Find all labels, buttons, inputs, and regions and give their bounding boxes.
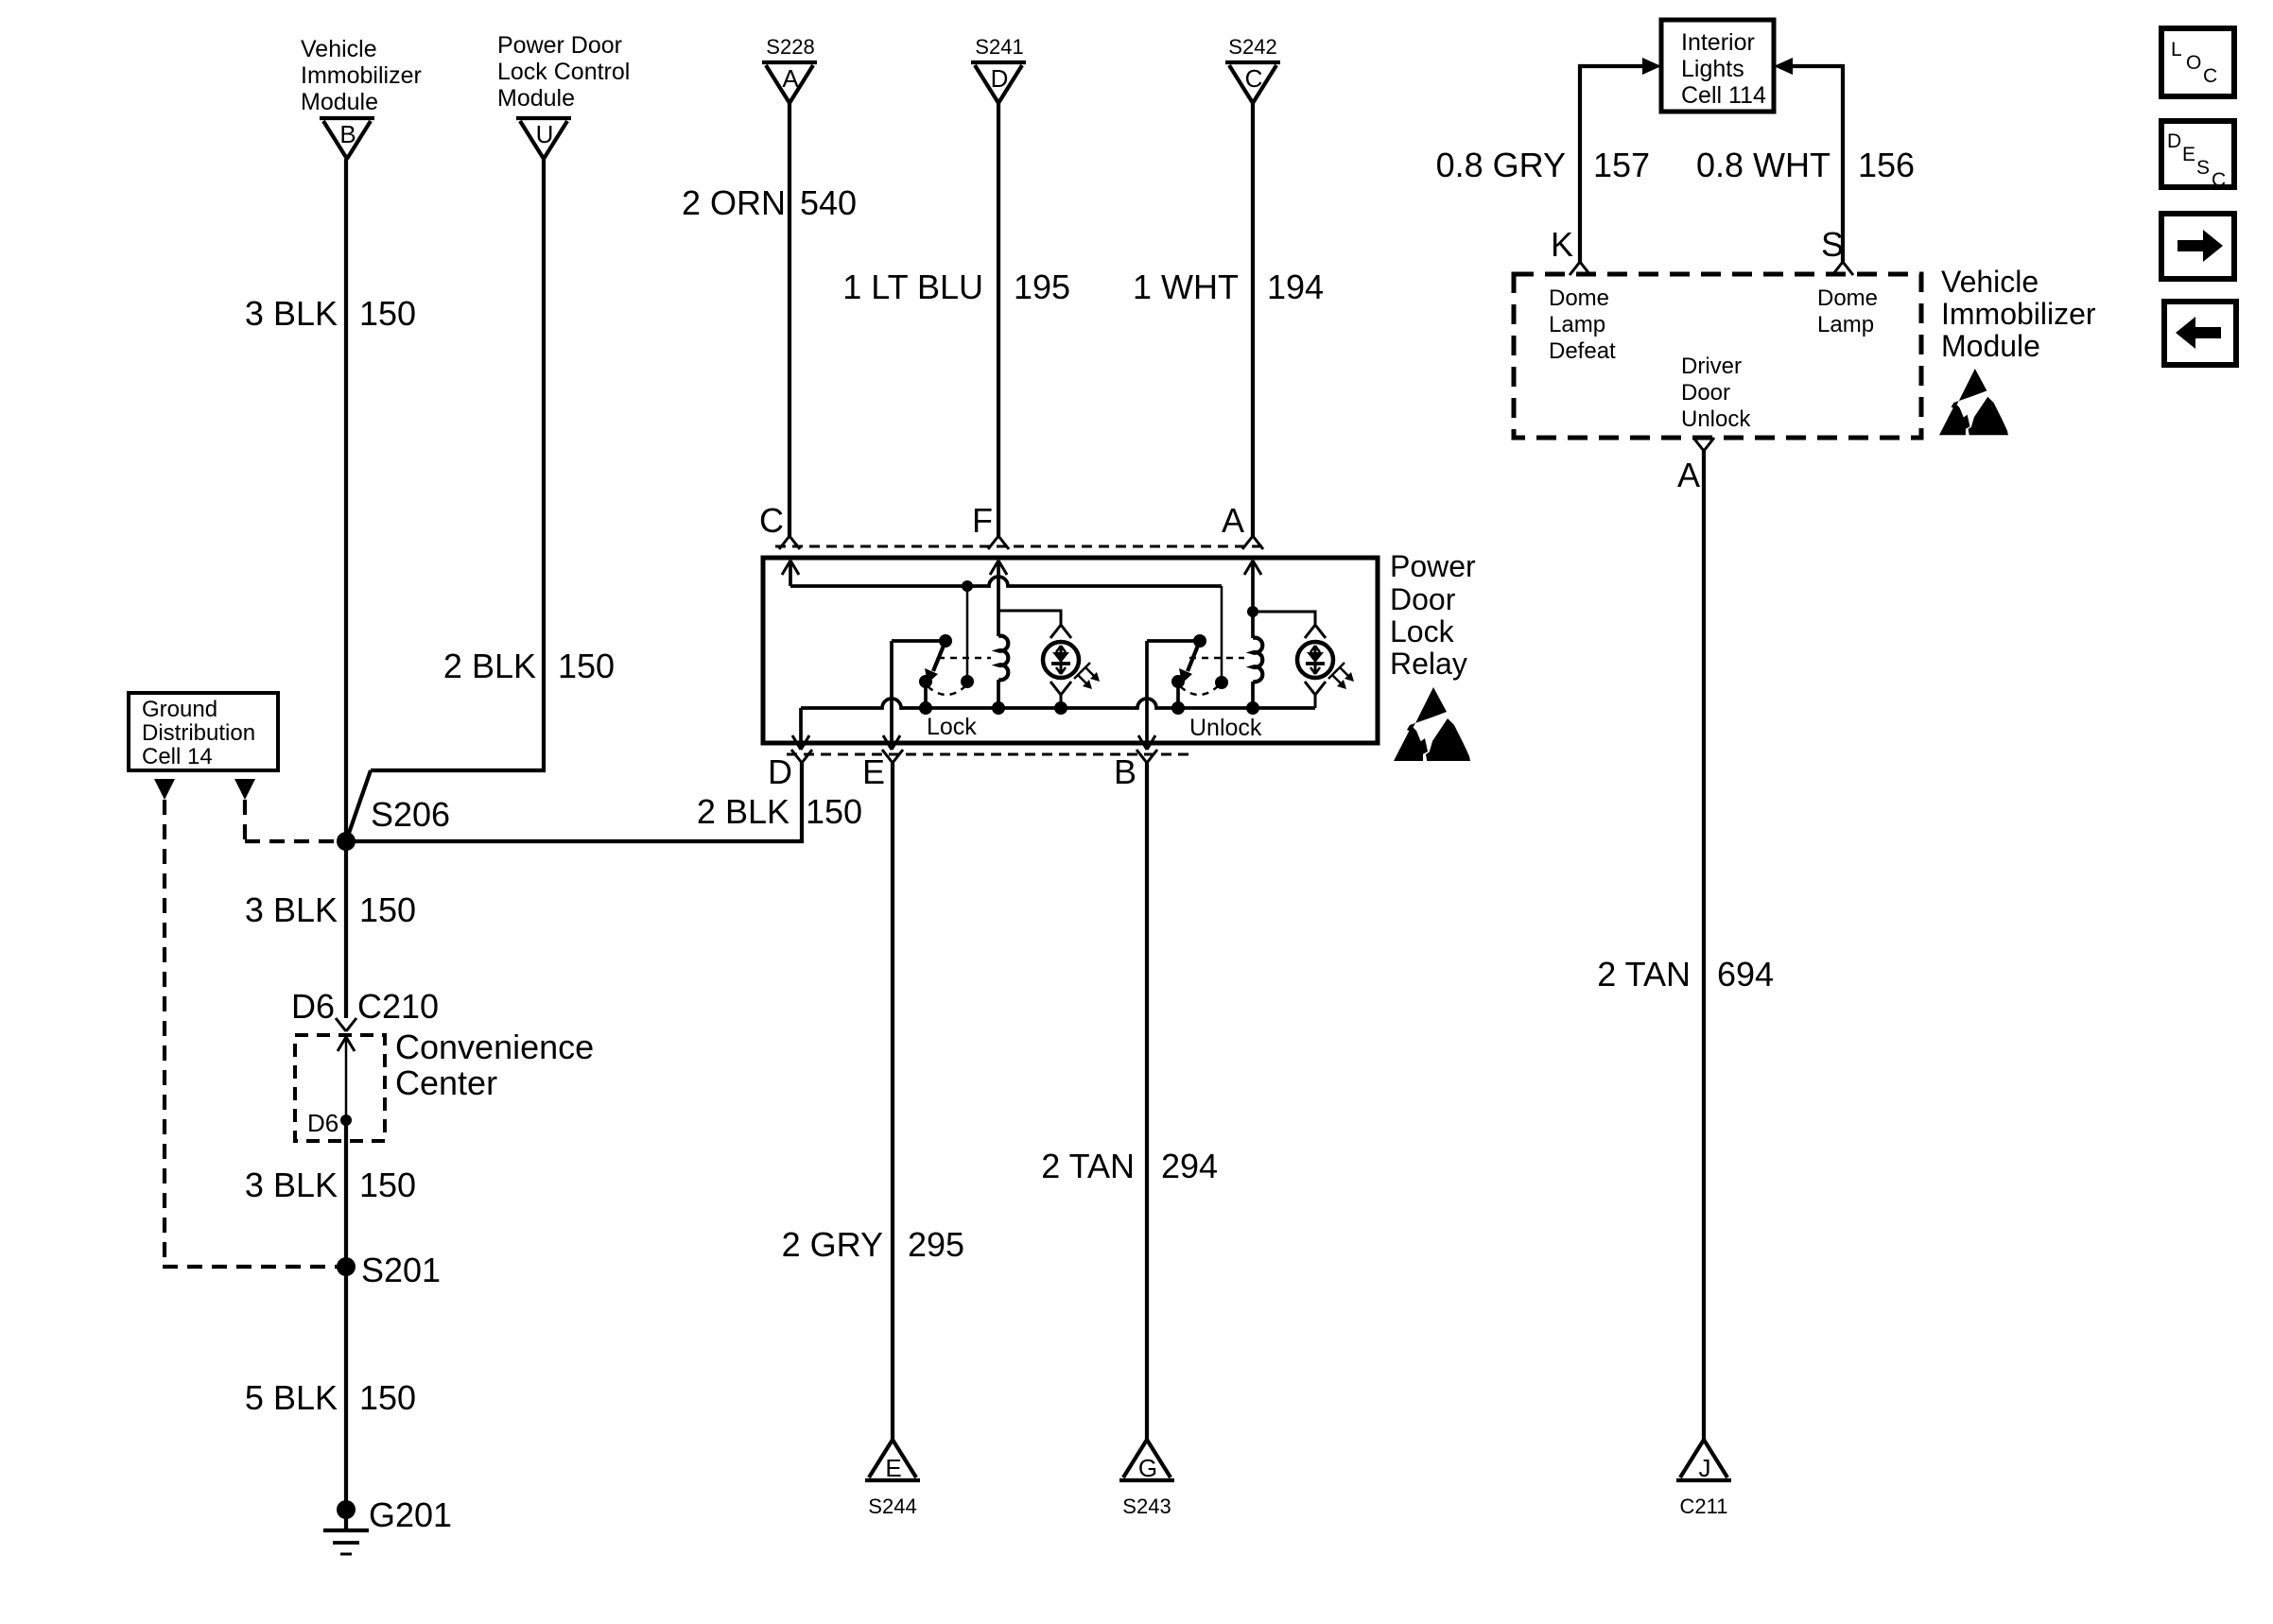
unlock switch blade with arrow — [1179, 641, 1200, 683]
splice label S242 — [1228, 35, 1276, 59]
lock switch to coil mechanical dashed link — [938, 657, 991, 660]
pin letter F (relay) — [972, 501, 993, 540]
lock switch feed corner from pin E — [892, 639, 946, 643]
svg-text:Ground: Ground — [142, 697, 217, 722]
label 2 BLK 150 (U wire) — [443, 647, 615, 685]
svg-text:Unlock: Unlock — [1189, 715, 1262, 741]
svg-text:Immobilizer: Immobilizer — [1941, 297, 2096, 331]
relay internal pin E wire and arrow down — [883, 641, 900, 750]
svg-text:Lock: Lock — [927, 714, 977, 740]
svg-text:156: 156 — [1858, 146, 1915, 184]
svg-text:Convenience: Convenience — [395, 1028, 594, 1066]
unlock switch feed corner from pin B — [1147, 639, 1200, 643]
svg-text:3 BLK: 3 BLK — [245, 294, 338, 333]
VIM pin S fork — [1832, 262, 1853, 275]
connector triangle B (Vehicle Immobilizer Module pin B) — [320, 118, 374, 159]
VIM pin K fork — [1570, 262, 1590, 275]
lock coil bottom junction — [992, 701, 1005, 715]
svg-text:C: C — [1245, 64, 1263, 93]
svg-text:S206: S206 — [371, 795, 450, 834]
label 3 BLK 150 (upper) — [245, 294, 416, 333]
back arrow button — [2164, 302, 2236, 365]
lock LED top fork — [1050, 625, 1071, 638]
thin wire to unlock switch fixed contact — [1221, 586, 1223, 682]
relay internal bottom rail — [801, 699, 1315, 708]
node junction on bus (lock fixed contact branch) — [962, 580, 973, 592]
svg-text:Unlock: Unlock — [1681, 406, 1751, 432]
label 3 BLK 150 (middle) — [245, 890, 416, 929]
label 2 TAN 294 — [1041, 1147, 1218, 1185]
relay internal pin A arrow up and coil feed wire — [1244, 561, 1261, 638]
svg-text:U: U — [536, 120, 554, 148]
DESC button — [2161, 121, 2234, 191]
connector label C211 — [1680, 1494, 1728, 1518]
svg-text:C: C — [759, 501, 784, 540]
lock switch fixed contact — [961, 675, 974, 688]
unlock coil bottom junction — [1246, 701, 1259, 715]
label Dome Lamp — [1817, 285, 1878, 337]
svg-text:Lights: Lights — [1681, 56, 1744, 82]
wire B vertical 3 BLK 150 to S206 — [344, 159, 348, 841]
pin letter C (relay) — [759, 501, 784, 540]
svg-text:150: 150 — [558, 647, 615, 685]
lock switch blade with arrow — [925, 641, 946, 683]
LOC button — [2161, 28, 2234, 96]
connector triangle A (S228) — [762, 62, 817, 103]
module label Vehicle Immobilizer Module (right) — [1941, 265, 2096, 363]
svg-text:Lock: Lock — [1390, 614, 1455, 648]
svg-text:Vehicle: Vehicle — [301, 36, 377, 62]
label 2 GRY 295 — [782, 1225, 964, 1264]
svg-text:S242: S242 — [1228, 35, 1276, 59]
connector triangle E (S244) — [865, 1440, 920, 1482]
svg-text:D6: D6 — [307, 1109, 338, 1137]
wire S206 down 3 BLK 150 to C210 — [344, 841, 348, 1018]
wire S to interior lights with arrow — [1774, 58, 1843, 262]
wire lock LED branch — [998, 611, 1061, 625]
svg-text:Dome: Dome — [1817, 285, 1878, 311]
unlock switch pivot contact — [1193, 634, 1206, 648]
svg-text:A: A — [1677, 456, 1700, 494]
svg-text:1 WHT: 1 WHT — [1133, 268, 1239, 306]
ESD sensitivity symbol (relay) — [1394, 687, 1470, 761]
svg-text:Door: Door — [1681, 380, 1730, 406]
relay top connector dashed line — [775, 545, 1265, 548]
pin letter B (relay bottom) — [1114, 752, 1136, 791]
label 1 WHT 194 — [1133, 268, 1324, 306]
lock LED bottom fork and stem — [1050, 682, 1071, 708]
label 2 TAN 694 — [1597, 955, 1774, 993]
module label Power Door Lock Control Module — [497, 32, 630, 112]
svg-text:295: 295 — [908, 1225, 964, 1264]
ground G201 — [323, 1495, 452, 1554]
rail junction at lock LED — [0, 0, 1, 1]
svg-text:1 LT BLU: 1 LT BLU — [842, 268, 983, 306]
svg-text:150: 150 — [359, 890, 416, 929]
relay pin D fork — [791, 750, 812, 763]
svg-text:B: B — [339, 120, 356, 148]
svg-text:Defeat: Defeat — [1549, 338, 1616, 364]
wire K to interior lights with arrow — [1580, 58, 1661, 262]
splice label S228 — [766, 35, 814, 59]
pin letter E (relay bottom) — [862, 752, 885, 791]
relay internal pin C arrow up — [782, 561, 799, 586]
relay internal pin B wire and arrow down — [1138, 641, 1155, 750]
svg-text:Cell 114: Cell 114 — [1681, 82, 1766, 109]
svg-text:S: S — [1821, 225, 1844, 264]
svg-text:150: 150 — [359, 294, 416, 333]
svg-text:O: O — [2186, 52, 2201, 74]
pin letter A (VIM) — [1677, 456, 1700, 494]
svg-text:694: 694 — [1717, 955, 1774, 993]
svg-text:Power Door: Power Door — [497, 32, 622, 59]
wire S241-D down 1 LT BLU 195 to relay pin F — [988, 103, 1009, 549]
filled arrowhead down from ground distribution box (left) — [154, 779, 175, 800]
relay internal bus wire C to unlock fixed contact (with hop over coil wire) — [790, 577, 1222, 586]
svg-text:150: 150 — [806, 792, 862, 831]
splice label S243 — [1122, 1494, 1171, 1518]
svg-text:D: D — [991, 64, 1009, 93]
label 2 BLK 150 (S206 to D) — [697, 792, 862, 831]
svg-text:195: 195 — [1014, 268, 1070, 306]
svg-text:2 ORN: 2 ORN — [682, 183, 786, 222]
svg-text:150: 150 — [359, 1166, 416, 1204]
svg-text:J: J — [1699, 1454, 1711, 1482]
svg-text:Driver: Driver — [1681, 354, 1742, 379]
svg-text:Module: Module — [1941, 329, 2040, 363]
svg-text:2 BLK: 2 BLK — [697, 792, 789, 831]
label 1 LT BLU 195 — [842, 268, 1070, 306]
dashed wire ground distribution to S201 — [163, 800, 338, 1267]
svg-text:Lamp: Lamp — [1817, 312, 1874, 337]
wire S228-A down 2 ORN 540 to relay pin C — [779, 103, 800, 549]
connector triangle J (C211) — [1676, 1440, 1731, 1482]
svg-text:194: 194 — [1267, 268, 1324, 306]
next arrow button — [2161, 214, 2234, 279]
connector triangle D (S241) — [971, 62, 1026, 103]
svg-text:3 BLK: 3 BLK — [245, 1166, 338, 1204]
svg-text:Vehicle: Vehicle — [1941, 265, 2039, 299]
pin letter S — [1821, 225, 1844, 264]
svg-text:A: A — [782, 64, 799, 93]
unlock switch fixed contact — [1215, 676, 1228, 689]
svg-text:G201: G201 — [369, 1495, 452, 1534]
svg-text:S244: S244 — [868, 1494, 916, 1518]
svg-text:Lamp: Lamp — [1549, 312, 1605, 337]
svg-text:E: E — [885, 1454, 901, 1482]
VIM pin A fork — [1693, 438, 1714, 451]
lock relay coil L1 — [998, 636, 1008, 708]
wire S206 to relay pin D (2 BLK 150) — [346, 763, 802, 841]
svg-text:Module: Module — [497, 85, 575, 112]
wire relay pin E down 2 GRY 295 to S244 — [891, 763, 894, 1440]
svg-text:B: B — [1114, 752, 1136, 791]
svg-text:2 TAN: 2 TAN — [1041, 1147, 1135, 1185]
unlock LED bottom fork and stem — [1305, 682, 1326, 708]
svg-text:K: K — [1551, 225, 1573, 264]
label Driver Door Unlock — [1681, 354, 1751, 432]
connector triangle C (S242) — [1225, 62, 1280, 103]
lock switch dashed travel arc — [928, 686, 965, 695]
svg-text:S: S — [2196, 157, 2210, 179]
unlock relay coil L2 — [1253, 638, 1262, 708]
svg-text:150: 150 — [359, 1378, 416, 1417]
pin letter K — [1551, 225, 1573, 264]
svg-text:C211: C211 — [1680, 1494, 1728, 1518]
label 3 BLK 150 (lower) — [245, 1166, 416, 1204]
wire convenience center to S201 (3 BLK 150) — [344, 1120, 348, 1267]
label 5 BLK 150 — [245, 1378, 416, 1417]
svg-text:F: F — [972, 501, 993, 540]
svg-text:0.8 WHT: 0.8 WHT — [1696, 146, 1831, 184]
svg-text:D6: D6 — [291, 987, 335, 1026]
svg-text:Dome: Dome — [1549, 285, 1609, 311]
splice S201 — [337, 1251, 441, 1289]
splice label S244 — [868, 1494, 916, 1518]
svg-text:C: C — [2212, 169, 2226, 191]
svg-text:A: A — [1222, 501, 1244, 540]
svg-text:2 TAN: 2 TAN — [1597, 955, 1691, 993]
svg-text:G: G — [1138, 1454, 1157, 1482]
svg-text:157: 157 — [1593, 146, 1650, 184]
convenience center dashed box — [295, 1028, 594, 1141]
svg-text:Relay: Relay — [1390, 647, 1467, 681]
relay internal pin D arrow down — [792, 708, 809, 750]
svg-text:L: L — [2171, 39, 2182, 60]
label Unlock — [1189, 715, 1262, 741]
label Lock — [927, 714, 977, 740]
svg-text:Lock Control: Lock Control — [497, 59, 630, 85]
module label Vehicle Immobilizer Module (top left) — [301, 36, 422, 115]
wire S201 to G201 (5 BLK 150) — [344, 1267, 348, 1510]
svg-text:C210: C210 — [357, 987, 439, 1026]
unlock coil feed junction — [1247, 606, 1258, 617]
label 0.8 WHT 156 — [1696, 146, 1915, 184]
svg-text:0.8 GRY: 0.8 GRY — [1436, 146, 1566, 184]
unlock LED top fork — [1305, 625, 1326, 638]
svg-text:5 BLK: 5 BLK — [245, 1378, 338, 1417]
svg-text:Module: Module — [301, 89, 378, 115]
wire U 2 BLK 150 down and over to S206 — [346, 159, 544, 841]
svg-text:Center: Center — [395, 1063, 497, 1102]
svg-text:Distribution: Distribution — [142, 720, 255, 746]
connector C210 pin D6 fork — [291, 987, 439, 1031]
lock LED bottom junction — [1054, 701, 1067, 715]
svg-text:Immobilizer: Immobilizer — [301, 62, 422, 89]
lock switch pivot contact — [939, 634, 952, 648]
wire VIM pin A down 2 TAN 694 to C211 — [1702, 451, 1706, 1440]
rail junction at lock moving contact — [919, 701, 932, 715]
svg-text:Interior: Interior — [1681, 29, 1755, 56]
label Dome Lamp Defeat — [1549, 285, 1616, 364]
label 0.8 GRY 157 — [1436, 146, 1651, 184]
svg-text:Cell 14: Cell 14 — [142, 744, 213, 769]
relay pin E fork — [882, 750, 903, 763]
connector triangle G (S243) — [1119, 1440, 1174, 1482]
svg-text:S243: S243 — [1122, 1494, 1171, 1518]
pin letter D (relay bottom) — [768, 752, 792, 791]
unlock switch to coil mechanical dashed link — [1189, 657, 1244, 660]
unlock switch moving contact — [1171, 675, 1185, 708]
unlock switch dashed travel arc — [1180, 686, 1218, 695]
convenience center internal arrow up and fuse node D6 — [307, 1037, 355, 1137]
svg-text:Door: Door — [1390, 582, 1456, 616]
wire S242-C down 1 WHT 194 to relay pin A — [1242, 103, 1263, 549]
lock switch moving contact — [919, 675, 932, 708]
thin wire to lock switch fixed contact — [966, 586, 969, 682]
relay bottom connector dashed line — [787, 753, 1189, 756]
svg-text:E: E — [2182, 144, 2195, 165]
module label Power Door Lock Relay — [1390, 549, 1476, 681]
unlock indicator LED D2 — [1297, 642, 1354, 689]
svg-text:294: 294 — [1161, 1147, 1218, 1185]
svg-text:E: E — [862, 752, 885, 791]
wire unlock LED branch — [1253, 612, 1315, 625]
rail junction at unlock moving contact — [1171, 701, 1185, 715]
ESD sensitivity symbol (VIM) — [1939, 369, 2008, 435]
splice label S241 — [975, 35, 1023, 59]
power door lock relay box outline — [763, 558, 1378, 743]
interior lights cell 114 box — [1661, 20, 1774, 112]
lock indicator LED D1 — [1043, 642, 1100, 689]
svg-text:D: D — [768, 752, 792, 791]
svg-text:C: C — [2203, 65, 2217, 87]
connector triangle U (Power Door Lock Control Module pin U) — [516, 118, 571, 159]
svg-text:3 BLK: 3 BLK — [245, 890, 338, 929]
vehicle immobilizer module dashed box — [1514, 274, 1921, 438]
svg-text:2 BLK: 2 BLK — [443, 647, 536, 685]
relay internal pin F arrow up and coil feed wire — [990, 561, 1007, 636]
svg-text:540: 540 — [800, 183, 857, 222]
svg-text:2 GRY: 2 GRY — [782, 1225, 883, 1264]
svg-text:S241: S241 — [975, 35, 1023, 59]
filled arrowhead down from ground distribution box (right) — [234, 779, 255, 800]
svg-text:S228: S228 — [766, 35, 814, 59]
ground distribution box (Cell 14) — [129, 693, 278, 770]
wire relay pin B down 2 TAN 294 to S243 — [1145, 763, 1149, 1440]
splice S206 — [337, 795, 450, 851]
relay pin B fork — [1136, 750, 1157, 763]
svg-text:S201: S201 — [361, 1251, 441, 1289]
pin letter A (relay) — [1222, 501, 1244, 540]
svg-text:Power: Power — [1390, 549, 1476, 583]
dashed wire ground distribution to S206 — [245, 800, 337, 841]
label 2 ORN 540 — [682, 183, 857, 222]
svg-text:D: D — [2167, 130, 2181, 152]
